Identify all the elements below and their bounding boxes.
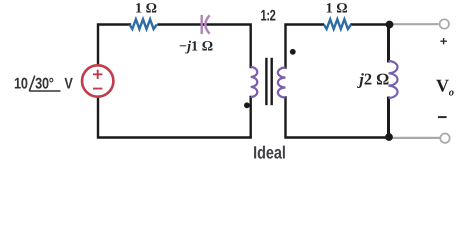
svg-text:10: 10 [14, 75, 28, 92]
svg-text:1 Ω: 1 Ω [326, 0, 348, 16]
svg-text:Ideal: Ideal [253, 142, 286, 162]
svg-text:o: o [449, 88, 454, 99]
svg-text:−j1 Ω: −j1 Ω [179, 39, 213, 55]
svg-text:j2 Ω: j2 Ω [356, 69, 389, 88]
svg-text:1:2: 1:2 [261, 8, 276, 25]
svg-text:V: V [64, 75, 73, 92]
svg-text:V: V [436, 76, 449, 96]
svg-text:1 Ω: 1 Ω [135, 0, 157, 16]
svg-text:30°: 30° [35, 75, 54, 92]
